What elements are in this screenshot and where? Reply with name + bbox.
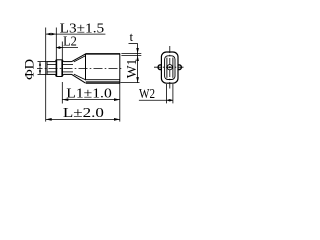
end view slot right line — [172, 58, 174, 78]
end view center dot — [169, 66, 171, 68]
t leader shelf — [129, 43, 138, 45]
end view inner outline — [165, 56, 175, 80]
barrel2 bottom edge — [63, 73, 71, 75]
W2 extension line right — [172, 84, 174, 103]
t extension line lower — [121, 55, 141, 57]
W2 dimension line — [167, 99, 173, 101]
phi-D dimension line — [39, 62, 41, 75]
barrel inner bottom line — [47, 71, 56, 73]
barrel bottom edge — [47, 73, 55, 75]
svg-text:t: t — [130, 29, 134, 44]
end view slot left line — [166, 58, 168, 78]
end view center circle — [167, 65, 172, 70]
t extension line upper — [121, 53, 141, 55]
funnel inner top diagonal — [74, 56, 86, 62]
centerline main view — [37, 67, 123, 69]
barrel2 inner bottom line — [62, 71, 73, 73]
end view horizontal centerline — [154, 66, 184, 68]
crimp band step top-right — [62, 60, 63, 62]
arrow phi-D top — [39, 62, 41, 66]
arrow L1 left — [62, 98, 68, 101]
phi-D tick top — [38, 61, 48, 63]
extension line x=62.3 lower (L1 left) — [61, 82, 63, 104]
arrow L3 left — [46, 33, 51, 36]
arrow L2 left — [56, 46, 59, 49]
barrel2 inner top line — [62, 64, 73, 66]
arrow L1 right — [114, 98, 120, 101]
arrow L3 right — [51, 33, 56, 36]
barrel inner top line — [47, 64, 56, 66]
barrel top edge — [47, 61, 55, 63]
extension line x=56.3 (L3 right / L2 left) — [55, 28, 57, 60]
svg-text:L1±1.0: L1±1.0 — [66, 87, 112, 102]
svg-text:W2: W2 — [139, 87, 155, 102]
arrow L left — [46, 118, 52, 121]
svg-text:ΦD: ΦD — [21, 59, 36, 80]
arrow L2 right — [59, 46, 62, 49]
W1 bottom extension line — [121, 82, 140, 84]
arrow W1 bottom (down) — [136, 77, 139, 83]
funnel outer top diagonal — [72, 54, 86, 62]
svg-text:W1: W1 — [125, 59, 140, 79]
arrow L right — [114, 118, 120, 121]
end view vertical centerline — [169, 46, 171, 89]
W2 leader shelf — [139, 99, 167, 101]
body left seam edge — [85, 54, 87, 81]
svg-text:L2: L2 — [63, 35, 77, 50]
crimp band right edge — [61, 60, 63, 77]
body top edge — [86, 53, 120, 55]
crimp band step top-left — [55, 60, 56, 62]
end view left bump — [158, 65, 161, 70]
arrow t upper (down) — [136, 48, 139, 54]
extension line x=62.3 upper (L2 right) — [61, 42, 63, 60]
terminal dimension drawing — [0, 0, 208, 144]
t / W1 dimension vertical line — [137, 44, 139, 83]
body bottom seam line — [86, 79, 120, 81]
arrow W2 left — [167, 99, 170, 102]
funnel inner bottom diagonal — [74, 74, 86, 80]
phi-D tick bottom — [38, 73, 48, 75]
arrow t lower (up) — [136, 56, 139, 62]
end view right bump — [178, 65, 181, 70]
body bottom edge — [86, 82, 120, 84]
dimension line L2 — [56, 47, 78, 49]
crimp band bottom edge — [56, 76, 62, 78]
dimension line L3 — [46, 33, 106, 35]
crimp band step bottom-right — [62, 74, 63, 76]
barrel left edge — [46, 62, 48, 75]
body right edge — [119, 53, 121, 83]
crimp band left edge — [55, 60, 57, 77]
dimension line L — [46, 118, 120, 120]
arrow phi-D bottom — [39, 70, 41, 74]
body bottom inner line — [86, 81, 120, 83]
extension line right (L1 / L right) — [119, 84, 121, 122]
funnel outer bottom diagonal — [72, 74, 86, 83]
arrow W2 right — [170, 99, 173, 102]
dimension line L1 — [62, 99, 120, 101]
barrel2 top edge — [63, 61, 71, 63]
crimp band top edge — [56, 59, 62, 61]
crimp band step bottom-left — [55, 74, 56, 76]
W2 extension line left — [166, 84, 168, 103]
extension line left (L3 / L) — [45, 28, 47, 122]
end view outer outline — [161, 52, 178, 83]
svg-text:L±2.0: L±2.0 — [63, 106, 104, 121]
